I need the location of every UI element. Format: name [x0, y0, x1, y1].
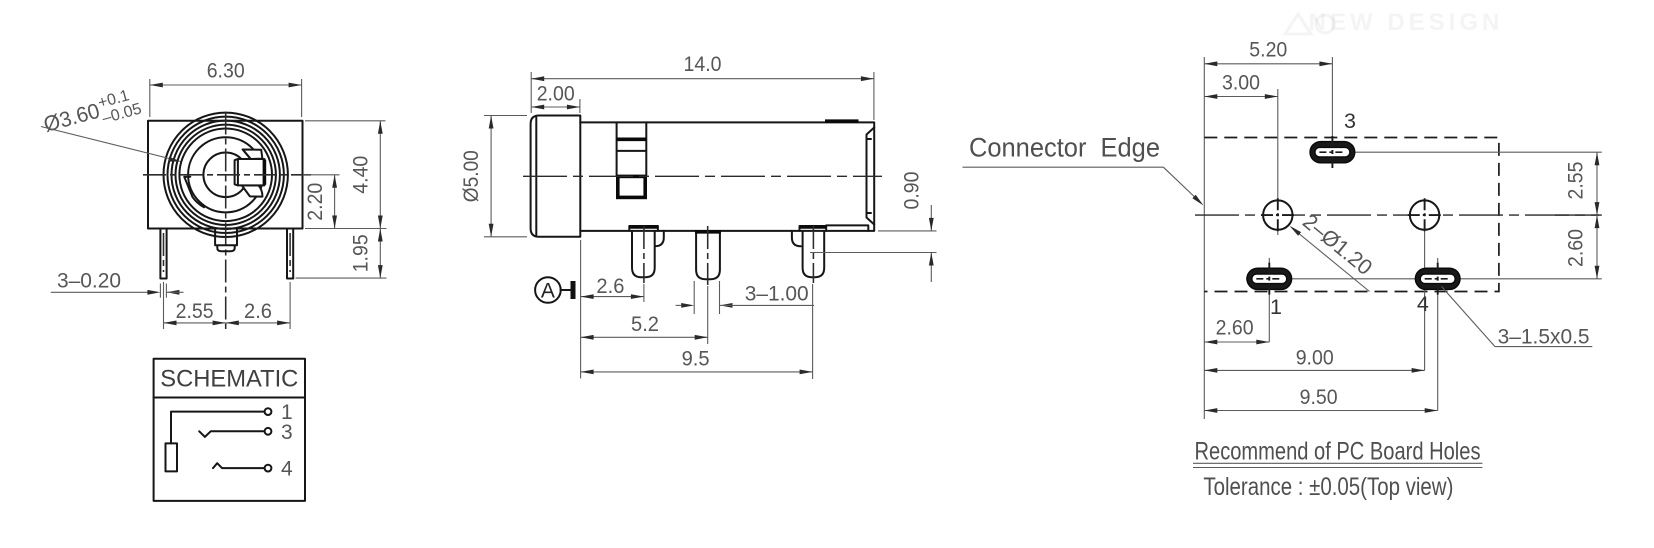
extension line through hole 1 [1277, 89, 1279, 235]
hole right 1.20 [1410, 200, 1439, 229]
svg-text:1: 1 [1270, 295, 1282, 319]
extension lines 4.40 / 1.95 [296, 121, 387, 278]
schematic box frame [154, 359, 305, 501]
svg-text:2.6: 2.6 [244, 299, 272, 323]
extension line through pad 4 [1437, 258, 1439, 411]
board centerline [1195, 214, 1602, 216]
leader 3-1.5x0.5 [1442, 287, 1593, 349]
front view right leg [287, 229, 293, 279]
svg-text:9.00: 9.00 [1296, 346, 1334, 370]
tip contact upper fold [243, 150, 263, 160]
extension lines bottom front [164, 282, 291, 329]
svg-text:2.6: 2.6 [596, 274, 624, 298]
extension lines diameter 5.00 [484, 116, 527, 237]
svg-text:A: A [541, 280, 555, 303]
side view centerline [523, 175, 882, 177]
dimension 6.30 [150, 59, 302, 88]
body right end cap inner line [867, 128, 875, 225]
svg-text:3–0.20: 3–0.20 [57, 269, 121, 293]
svg-text:2.20: 2.20 [303, 183, 327, 221]
svg-text:0.90: 0.90 [900, 171, 924, 209]
svg-text:3: 3 [1344, 109, 1356, 133]
pad 4 slot [1415, 263, 1460, 295]
extension lines leg centers [644, 284, 813, 379]
dimension dia 5.00 [459, 116, 494, 237]
tip contact main plate [235, 159, 265, 185]
dimension 2.60 right [1564, 215, 1600, 279]
svg-text:2.55: 2.55 [1564, 161, 1588, 199]
dimension 9.5 [581, 347, 813, 375]
schematic pin 3 terminal [265, 428, 272, 435]
dimension 3-0.20 [51, 269, 184, 298]
dimension 14.0 [531, 52, 874, 81]
svg-text:4.40: 4.40 [349, 156, 373, 194]
contact lower thick rectangle [618, 176, 645, 197]
datum symbol A [535, 277, 575, 303]
dimension 3-1.00 [676, 281, 814, 314]
svg-text:2.60: 2.60 [1216, 316, 1254, 340]
svg-text:4: 4 [1417, 292, 1429, 316]
svg-text:2.00: 2.00 [537, 82, 575, 106]
dimension 2.6 [226, 299, 290, 325]
side view leg 2 [696, 231, 720, 279]
side view leg 3 [800, 226, 827, 277]
extension line 2.20 [303, 174, 340, 176]
front view vertical centerline [225, 112, 227, 330]
schematic wire pin1 to tip [171, 412, 265, 444]
connector edge label [963, 133, 1204, 206]
schematic wire pin 3 switch [199, 431, 264, 437]
front view inner sleeve ring [188, 137, 263, 212]
svg-text:9.50: 9.50 [1300, 385, 1338, 409]
svg-text:1.95: 1.95 [349, 234, 373, 272]
dimension 0.90 [810, 171, 937, 282]
side view barrel body [580, 122, 874, 230]
svg-text:Tolerance : ±0.05(Top view): Tolerance : ±0.05(Top view) [1203, 473, 1453, 501]
schematic wire pin 4 switch [213, 463, 265, 468]
extension lines 6.30 [150, 79, 302, 117]
front view bottom tip pin [215, 229, 237, 252]
svg-text:3: 3 [281, 421, 293, 444]
dimension 2.60 [1204, 316, 1269, 345]
svg-text:Recommend of PC Board Holes: Recommend of PC Board Holes [1195, 438, 1481, 466]
dimension 2.00 [531, 82, 580, 110]
schematic pin 1 terminal [265, 408, 272, 415]
front view outer circle rings [164, 113, 288, 237]
dimension 1.95 [349, 229, 383, 279]
svg-text:4: 4 [281, 458, 293, 481]
front view left leg [160, 229, 166, 279]
svg-text:14.0: 14.0 [684, 52, 722, 76]
extension line through pad 3 [1331, 57, 1333, 166]
front view center hole circle [203, 153, 248, 198]
extension line through hole 2 and pad 4 [1424, 200, 1426, 370]
dimension 4.40 [349, 121, 383, 229]
schematic title divider [154, 397, 305, 399]
leg 1 right ledge [655, 231, 664, 246]
svg-text:2.60: 2.60 [1564, 229, 1588, 267]
hole left 1.20 [1263, 200, 1292, 229]
svg-text:5.20: 5.20 [1249, 38, 1287, 62]
svg-text:5.2: 5.2 [631, 312, 659, 336]
dimension 9.00 [1204, 346, 1424, 373]
pad 3 slot [1310, 136, 1355, 168]
contact window rectangles [617, 122, 647, 175]
title recommend of pc board holes [1193, 438, 1482, 468]
sleeve flat cutout lower-left [184, 177, 204, 207]
dimension 9.50 [1204, 385, 1437, 413]
leader 2-dia1.20 [1290, 209, 1377, 291]
front view horizontal centerline [143, 174, 311, 176]
extension line through pad 1 [1268, 258, 1270, 342]
body bottom right step [826, 225, 868, 231]
side view leg 1 [629, 226, 658, 277]
diameter label 3.60 with tolerance [40, 85, 181, 162]
dimension 3.00 [1204, 71, 1278, 99]
schematic tip contact rectangle [166, 443, 178, 471]
svg-text:SCHEMATIC: SCHEMATIC [160, 366, 298, 393]
board outline dashed [1204, 138, 1499, 292]
svg-text:Connector Edge: Connector Edge [969, 133, 1160, 163]
svg-text:Ø5.00: Ø5.00 [459, 150, 483, 202]
svg-text:6.30: 6.30 [207, 59, 245, 83]
extension lines 14.0 / 2.00 [531, 72, 874, 120]
tip contact lower fold [242, 185, 263, 196]
hole crosshairs [1261, 198, 1441, 232]
svg-text:3–1.00: 3–1.00 [745, 281, 809, 305]
dimension 2.6 side [581, 274, 644, 299]
extension line from mounting face [580, 240, 582, 379]
svg-text:2.55: 2.55 [176, 299, 214, 323]
dimension 2.55 [1564, 152, 1600, 215]
dimension 5.2 [581, 312, 708, 340]
side view flange [531, 116, 581, 237]
svg-text:9.5: 9.5 [682, 347, 710, 371]
dimension 5.20 [1204, 38, 1332, 67]
svg-text:NEW DESIGN: NEW DESIGN [1309, 9, 1504, 36]
svg-text:3–1.5x0.5: 3–1.5x0.5 [1498, 325, 1590, 349]
front view body rectangle [148, 121, 303, 229]
body top-right thick mark [825, 119, 859, 123]
svg-text:3.00: 3.00 [1222, 71, 1260, 95]
board connector edge line [1203, 57, 1205, 419]
leg 3 left ledge [792, 231, 801, 246]
schematic pin 4 terminal [265, 465, 272, 472]
horizontal line through pad 3 [1310, 151, 1602, 153]
dimension 2.55 [164, 299, 226, 325]
dimension 2.20 [303, 175, 337, 229]
horizontal line through pads 1 and 4 [1246, 278, 1602, 280]
pad 1 slot [1247, 263, 1292, 295]
